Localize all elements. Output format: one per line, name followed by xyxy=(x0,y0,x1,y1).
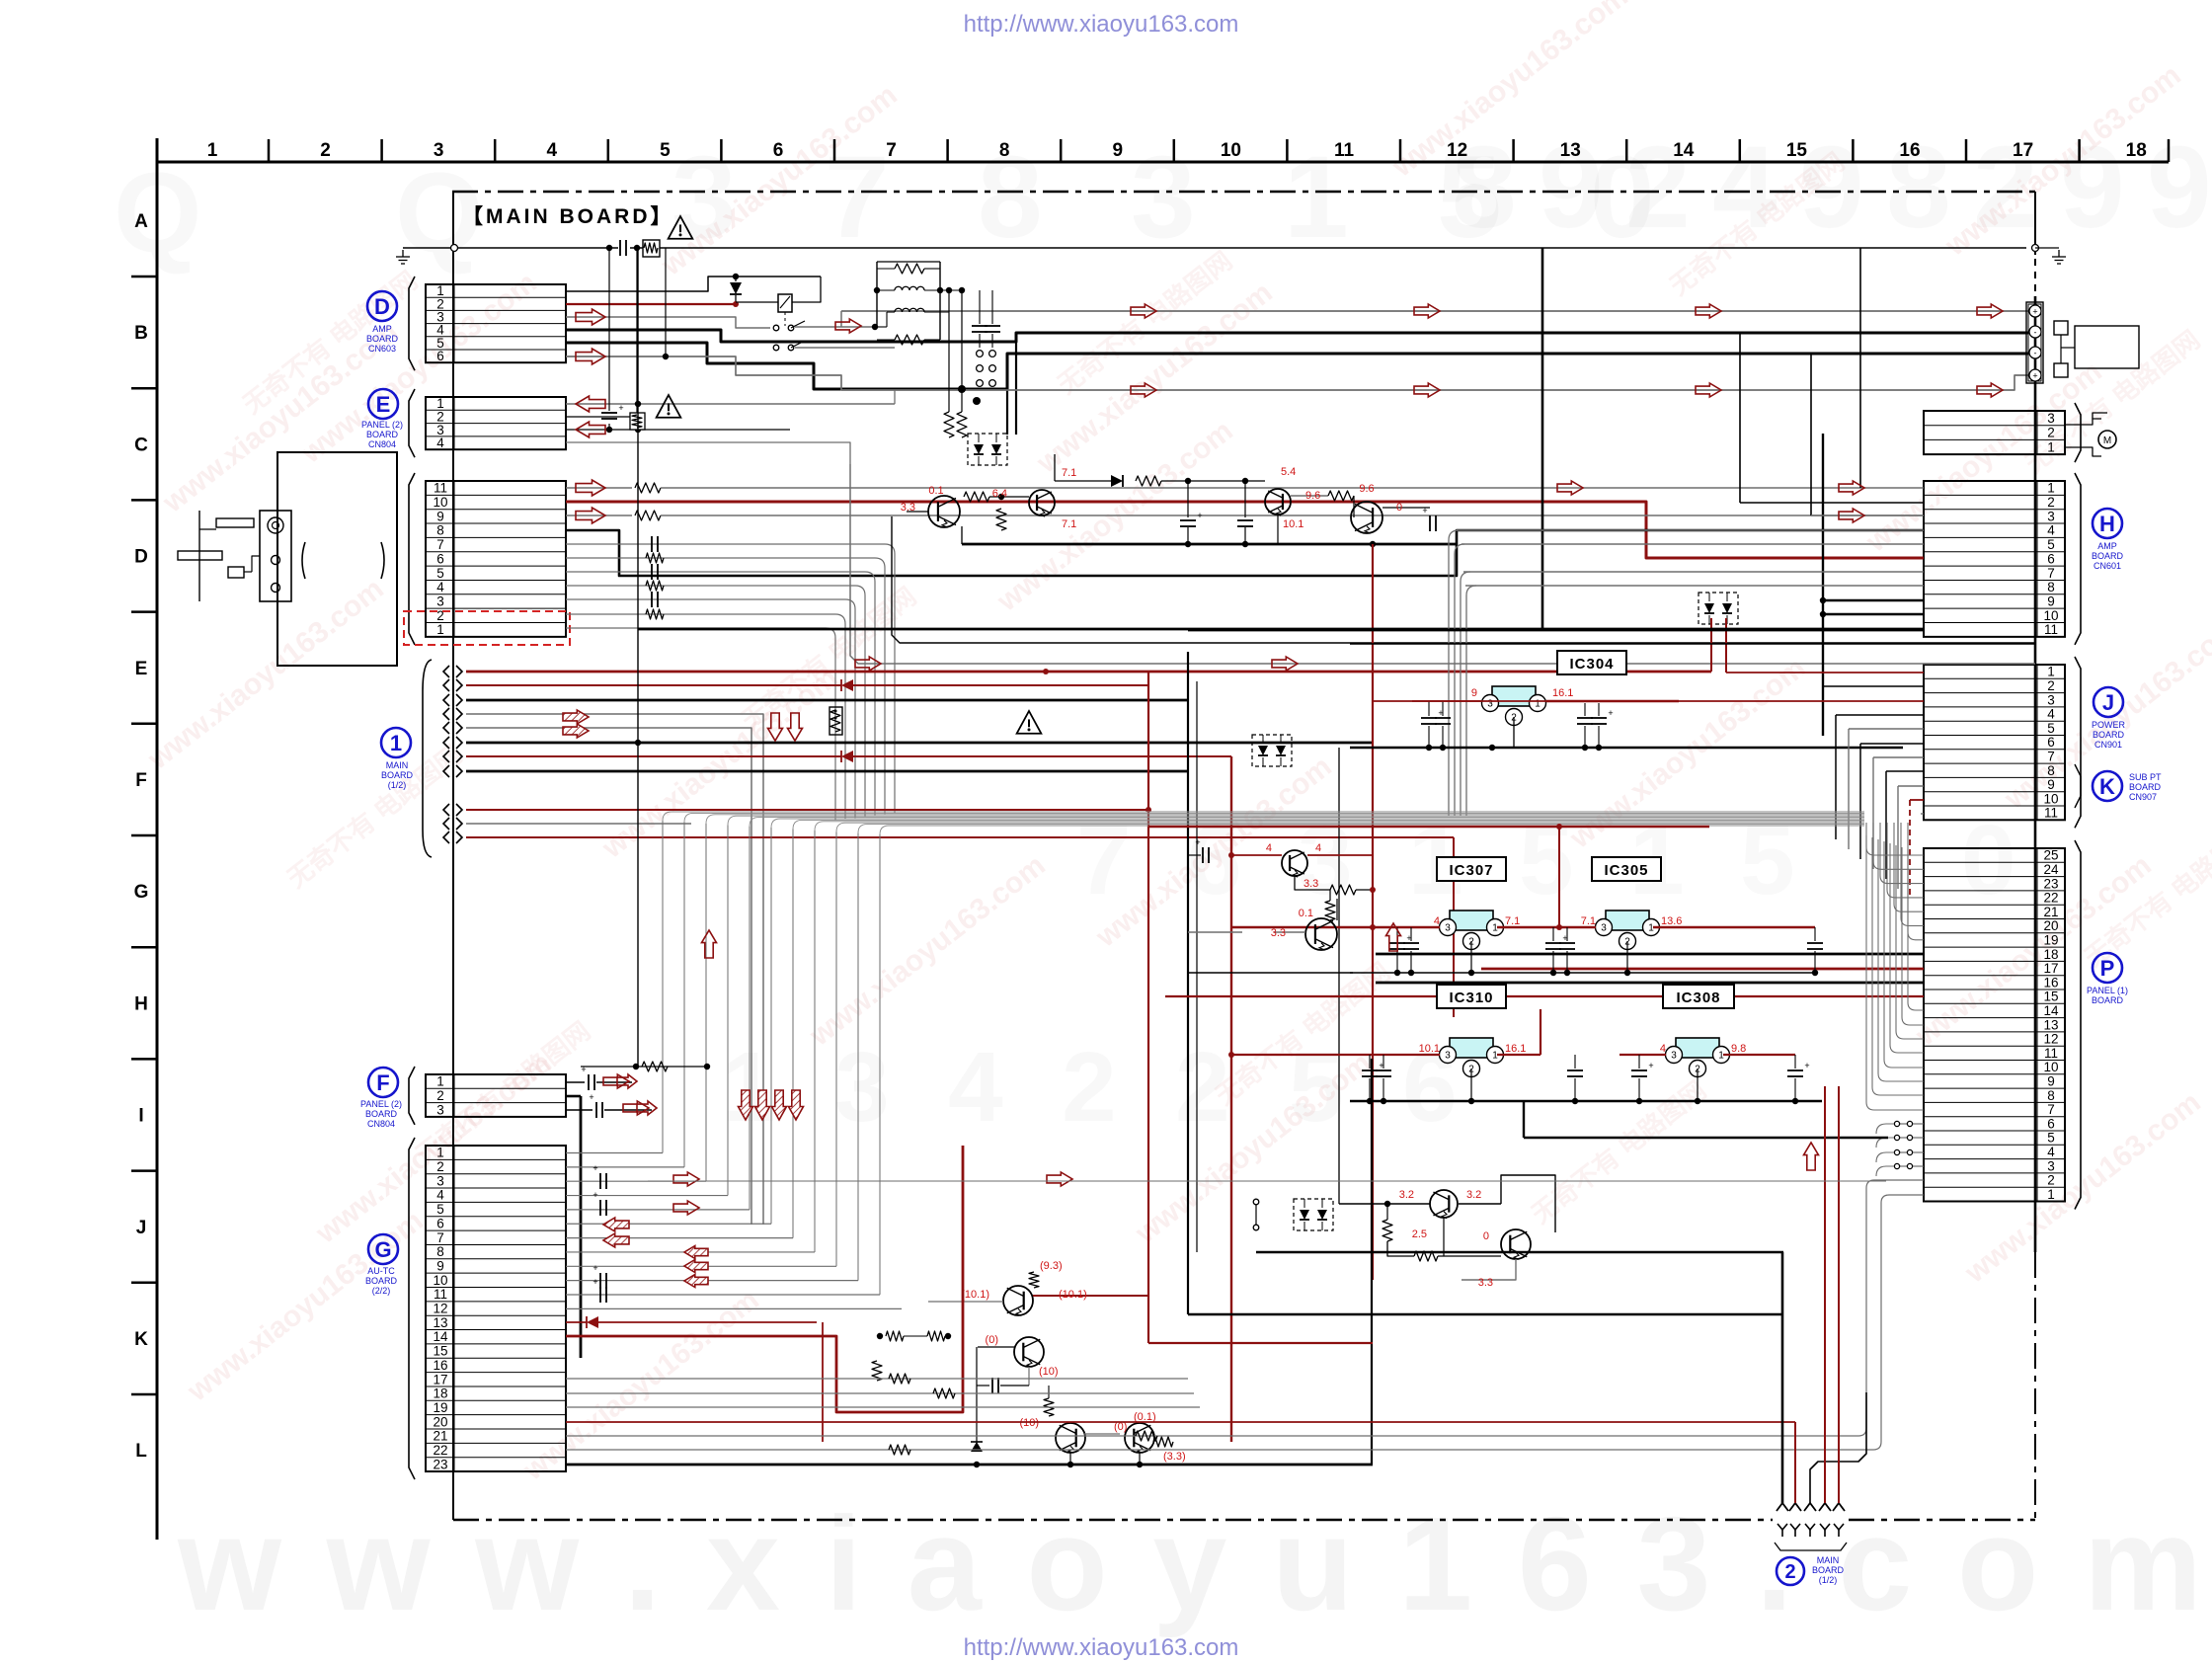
connector CN mech 11pin xyxy=(409,473,566,645)
svg-text:10: 10 xyxy=(1221,140,1241,161)
main board border xyxy=(452,192,2035,1520)
svg-text:17: 17 xyxy=(2043,961,2058,976)
svg-text:P: P xyxy=(2100,956,2115,981)
svg-text:22: 22 xyxy=(433,1443,447,1458)
svg-text:PANEL (2): PANEL (2) xyxy=(361,420,403,430)
connector motor 3pin xyxy=(1924,403,2081,462)
wire E pins xyxy=(566,248,895,464)
svg-text:1: 1 xyxy=(436,622,444,637)
svg-text:(10): (10) xyxy=(1019,1417,1039,1429)
svg-text:3: 3 xyxy=(2047,692,2055,707)
svg-text:6.4: 6.4 xyxy=(992,488,1007,500)
voltage labels Q5 Q6 xyxy=(1266,842,1321,939)
svg-text:17: 17 xyxy=(433,1372,447,1386)
svg-text:3.3: 3.3 xyxy=(1303,878,1318,890)
svg-text:3: 3 xyxy=(1601,923,1607,934)
svg-text:1: 1 xyxy=(2047,439,2055,454)
IC voltage labels xyxy=(1419,915,1747,1055)
wire lower rails xyxy=(1148,1138,1888,1343)
svg-text:0: 0 xyxy=(1396,502,1402,514)
label 2 xyxy=(1777,1555,1844,1585)
wire rail 985 ext xyxy=(1188,972,1353,974)
svg-text:2: 2 xyxy=(1062,1032,1117,1143)
svg-text:7.1: 7.1 xyxy=(1062,518,1076,530)
warning triangle 2 xyxy=(657,395,681,418)
svg-text:D: D xyxy=(374,294,390,319)
svg-text:POWER: POWER xyxy=(2092,720,2126,730)
warning triangle 1 xyxy=(669,216,693,239)
svg-text:18: 18 xyxy=(2043,947,2058,962)
svg-text:1: 1 xyxy=(2047,481,2055,496)
svg-text:3.3: 3.3 xyxy=(1271,927,1286,939)
dual diode D4 xyxy=(1294,1199,1333,1230)
svg-text:10: 10 xyxy=(2043,608,2058,623)
svg-text:5: 5 xyxy=(2047,721,2055,736)
svg-text:(3.3): (3.3) xyxy=(1163,1451,1186,1463)
svg-text:8: 8 xyxy=(2047,1088,2055,1103)
connector H AMP BOARD CN601 xyxy=(1924,473,2081,645)
svg-text:16: 16 xyxy=(1899,140,1920,161)
boxed resistor xyxy=(829,707,842,735)
svg-text:25: 25 xyxy=(2043,848,2058,863)
svg-text:BOARD: BOARD xyxy=(2092,551,2124,561)
svg-text:9: 9 xyxy=(2147,122,2212,253)
svg-text:1: 1 xyxy=(207,140,218,161)
svg-text:IC304: IC304 xyxy=(1569,656,1614,673)
svg-text:5: 5 xyxy=(436,1202,444,1217)
wire into J xyxy=(1373,673,1924,899)
svg-text:0: 0 xyxy=(1483,1230,1489,1242)
svg-text:9.6: 9.6 xyxy=(1359,483,1374,495)
svg-text:9: 9 xyxy=(2047,1073,2055,1088)
svg-text:+: + xyxy=(592,1277,597,1287)
svg-text:+: + xyxy=(2032,307,2037,317)
wire top rail xyxy=(396,245,2066,265)
svg-text:3: 3 xyxy=(1445,923,1451,934)
voltage labels Q7 Q8 xyxy=(1399,1189,1493,1289)
svg-text:+: + xyxy=(592,1263,597,1273)
svg-text:5: 5 xyxy=(2047,1131,2055,1146)
svg-text:11: 11 xyxy=(434,1287,447,1302)
svg-text:15: 15 xyxy=(1786,140,1808,161)
voltage labels bottom cluster xyxy=(961,1260,1185,1463)
svg-text:7.1: 7.1 xyxy=(1505,915,1520,927)
dual diode D1 xyxy=(968,434,1007,465)
svg-text:-: - xyxy=(2034,349,2037,358)
svg-text:22: 22 xyxy=(2043,891,2058,906)
svg-text:K: K xyxy=(2099,774,2115,799)
svg-text:4: 4 xyxy=(2047,1145,2055,1159)
svg-text:11: 11 xyxy=(2044,622,2058,637)
signal arrows xyxy=(563,304,2003,1288)
connector G AU-TC BOARD xyxy=(409,1138,566,1479)
svg-text:16: 16 xyxy=(433,1358,447,1373)
svg-text:3.2: 3.2 xyxy=(1466,1189,1481,1201)
svg-text:12: 12 xyxy=(2043,1032,2058,1047)
svg-text:SUB PT: SUB PT xyxy=(2129,772,2162,782)
svg-text:MAIN: MAIN xyxy=(1817,1555,1840,1565)
svg-text:14: 14 xyxy=(2043,1003,2059,1018)
svg-text:L: L xyxy=(135,1441,147,1462)
svg-text:1: 1 xyxy=(2047,665,2055,679)
svg-text:8: 8 xyxy=(2047,763,2055,778)
svg-text:【MAIN BOARD】: 【MAIN BOARD】 xyxy=(462,205,674,228)
dual diode D3 xyxy=(1698,593,1738,624)
svg-text:2: 2 xyxy=(2047,495,2055,510)
capacitor and resistor on rail xyxy=(618,240,660,257)
svg-text:9: 9 xyxy=(2047,777,2055,792)
wire mid verticals xyxy=(638,248,1860,1465)
svg-text:2: 2 xyxy=(2047,678,2055,693)
svg-text:J: J xyxy=(136,1218,147,1238)
wire CN11 stubs xyxy=(566,536,895,821)
svg-text:7.1: 7.1 xyxy=(1062,467,1076,479)
svg-text:6: 6 xyxy=(436,349,444,363)
label K xyxy=(2075,764,2162,808)
svg-text:1: 1 xyxy=(390,731,402,755)
svg-text:+: + xyxy=(1608,708,1613,718)
wire IC304 rails xyxy=(1188,630,2035,751)
svg-text:11: 11 xyxy=(2044,1046,2058,1061)
svg-text:D: D xyxy=(134,547,148,568)
svg-text:CN804: CN804 xyxy=(368,439,396,449)
svg-text:4: 4 xyxy=(436,1188,444,1203)
svg-text:9: 9 xyxy=(436,509,444,523)
svg-text:4: 4 xyxy=(948,1032,1003,1143)
label E xyxy=(361,389,403,449)
highlight rows 1-2 red dashed xyxy=(404,611,570,645)
svg-text:CN603: CN603 xyxy=(368,344,396,354)
svg-text:F: F xyxy=(376,1070,389,1095)
svg-text:3.3: 3.3 xyxy=(1478,1277,1493,1289)
svg-text:4: 4 xyxy=(436,436,444,450)
svg-text:H: H xyxy=(2099,512,2115,536)
svg-text:8: 8 xyxy=(436,1244,444,1259)
svg-text:13: 13 xyxy=(1560,140,1581,161)
svg-text:+: + xyxy=(592,1163,597,1173)
svg-text:6: 6 xyxy=(2047,1116,2055,1131)
svg-text:6: 6 xyxy=(2047,735,2055,750)
svg-text:E: E xyxy=(135,659,148,679)
svg-text:(0): (0) xyxy=(986,1334,998,1346)
svg-text:AMP: AMP xyxy=(372,324,392,334)
svg-text:IC310: IC310 xyxy=(1449,990,1493,1006)
svg-text:2: 2 xyxy=(2047,1173,2055,1188)
svg-text:3: 3 xyxy=(436,1173,444,1188)
svg-text:2: 2 xyxy=(1784,1561,1795,1583)
svg-text:4: 4 xyxy=(1660,1043,1666,1055)
svg-text:19: 19 xyxy=(433,1400,447,1415)
label H xyxy=(2092,509,2124,571)
transistors Q5 Q6 xyxy=(1188,837,1376,950)
wire F pins xyxy=(566,1065,652,1358)
svg-text:0: 0 xyxy=(1961,805,2016,915)
svg-text:G: G xyxy=(374,1237,391,1262)
svg-text:12: 12 xyxy=(433,1302,447,1316)
svg-text:F: F xyxy=(135,770,147,791)
wire long gray mid xyxy=(648,1180,1886,1182)
svg-text:10: 10 xyxy=(433,495,447,510)
svg-text:11: 11 xyxy=(2044,806,2058,821)
svg-text:PANEL (2): PANEL (2) xyxy=(360,1099,402,1109)
svg-text:17: 17 xyxy=(2013,140,2033,161)
svg-text:4: 4 xyxy=(547,140,558,161)
watermark url top xyxy=(964,11,1239,38)
svg-text:http://www.xiaoyu163.com: http://www.xiaoyu163.com xyxy=(964,11,1239,38)
connector F PANEL(2) CN804 xyxy=(409,1067,566,1125)
svg-text:7: 7 xyxy=(2047,1102,2055,1117)
connector E PANEL(2) CN804 xyxy=(409,389,566,457)
svg-text:23: 23 xyxy=(2043,876,2058,891)
svg-text:4: 4 xyxy=(1266,842,1272,854)
svg-text:20: 20 xyxy=(2043,918,2058,933)
svg-text:0.1: 0.1 xyxy=(928,485,943,497)
connector 1 chevrons xyxy=(423,660,462,857)
svg-text:G: G xyxy=(134,882,149,903)
svg-text:7.1: 7.1 xyxy=(1581,915,1596,927)
svg-text:10: 10 xyxy=(2043,791,2058,806)
wire D4 D5 D6 rails xyxy=(566,311,2028,435)
svg-text:(2/2): (2/2) xyxy=(372,1286,391,1296)
wire G red pins xyxy=(566,1146,1795,1442)
svg-text:13: 13 xyxy=(2043,1017,2058,1032)
wire D pin1 xyxy=(566,274,821,291)
svg-text:BOARD: BOARD xyxy=(365,1276,398,1286)
svg-text:4: 4 xyxy=(2047,523,2055,538)
wire D3 switches xyxy=(566,317,895,351)
wire long rails EF xyxy=(850,464,2035,664)
svg-text:5: 5 xyxy=(2047,537,2055,552)
svg-text:16.1: 16.1 xyxy=(1552,687,1573,699)
svg-text:1: 1 xyxy=(721,1032,776,1143)
connector P PANEL(1) BOARD xyxy=(1924,840,2081,1210)
svg-text:M: M xyxy=(2103,436,2111,446)
svg-text:E: E xyxy=(376,392,391,417)
svg-text:6: 6 xyxy=(773,140,784,161)
svg-text:23: 23 xyxy=(433,1457,447,1471)
svg-text:21: 21 xyxy=(2043,905,2058,919)
wire into H xyxy=(638,503,1924,629)
svg-text:+: + xyxy=(1648,1061,1653,1070)
svg-text:3.3: 3.3 xyxy=(901,502,915,514)
svg-text:2: 2 xyxy=(436,1159,444,1174)
svg-text:BOARD: BOARD xyxy=(366,334,399,344)
svg-text:2.5: 2.5 xyxy=(1412,1228,1427,1240)
svg-text:4: 4 xyxy=(1434,915,1440,927)
svg-text:+: + xyxy=(1422,506,1427,515)
svg-text:2: 2 xyxy=(436,1088,444,1103)
label D xyxy=(366,291,399,354)
main board title xyxy=(462,205,674,228)
svg-text:(1/2): (1/2) xyxy=(388,780,407,790)
svg-text:16: 16 xyxy=(2043,975,2058,990)
svg-text:3: 3 xyxy=(1131,132,1196,263)
svg-text:5: 5 xyxy=(660,140,671,161)
svg-text:http://www.xiaoyu163.com: http://www.xiaoyu163.com xyxy=(964,1634,1239,1661)
svg-text:20: 20 xyxy=(433,1414,447,1429)
svg-text:+: + xyxy=(589,1092,593,1102)
svg-text:14: 14 xyxy=(1673,140,1695,161)
svg-text:11: 11 xyxy=(1334,140,1355,161)
wire chevron bus xyxy=(466,669,1711,1225)
svg-text:4: 4 xyxy=(1315,842,1321,854)
svg-text:K: K xyxy=(134,1329,148,1350)
svg-text:IC308: IC308 xyxy=(1676,990,1720,1006)
svg-text:BOARD: BOARD xyxy=(2093,730,2125,740)
svg-text:10.1: 10.1 xyxy=(1283,518,1303,530)
svg-text:3: 3 xyxy=(1671,1051,1677,1062)
svg-text:3: 3 xyxy=(436,1102,444,1117)
svg-text:IC305: IC305 xyxy=(1604,862,1648,879)
svg-text:+: + xyxy=(618,403,623,413)
svg-text:7: 7 xyxy=(436,537,444,552)
CD mechanism block xyxy=(178,452,397,666)
wire bus CN11 upper xyxy=(566,483,1924,576)
svg-text:6: 6 xyxy=(436,551,444,566)
svg-text:1: 1 xyxy=(436,1146,444,1160)
speaker terminal block xyxy=(2026,302,2139,383)
svg-text:18: 18 xyxy=(433,1386,447,1401)
svg-text:(1/2): (1/2) xyxy=(1819,1575,1838,1585)
IC pack labels xyxy=(1437,857,1734,1077)
label G xyxy=(365,1234,398,1296)
transistors Q7 Q8 xyxy=(1339,1175,1555,1280)
svg-text:13: 13 xyxy=(433,1315,447,1330)
svg-text:BOARD: BOARD xyxy=(2092,995,2124,1005)
svg-text:6: 6 xyxy=(436,1216,444,1230)
svg-text:1: 1 xyxy=(2047,1187,2055,1202)
svg-text:18: 18 xyxy=(2126,140,2147,161)
wire gray bundle to P xyxy=(663,812,1864,1295)
svg-text:3: 3 xyxy=(834,1032,890,1143)
svg-text:8: 8 xyxy=(436,523,444,538)
svg-text:IC307: IC307 xyxy=(1449,862,1493,879)
svg-text:3: 3 xyxy=(2047,509,2055,523)
svg-text:19: 19 xyxy=(2043,932,2058,947)
svg-text:21: 21 xyxy=(433,1429,447,1444)
svg-text:H: H xyxy=(134,993,148,1014)
svg-text:+: + xyxy=(1804,1061,1809,1070)
connector D AMP BOARD CN603 xyxy=(409,277,566,370)
switch S2 xyxy=(1253,1199,1259,1230)
svg-text:+: + xyxy=(1197,511,1202,520)
transistors bottom cluster xyxy=(872,1272,1173,1467)
svg-text:C: C xyxy=(134,435,148,455)
svg-text:13.6: 13.6 xyxy=(1661,915,1682,927)
svg-text:BOARD: BOARD xyxy=(2129,782,2162,792)
svg-text:3: 3 xyxy=(436,594,444,608)
svg-text:8: 8 xyxy=(2047,580,2055,594)
regulator wiring xyxy=(1228,924,1823,1104)
svg-text:PANEL (1): PANEL (1) xyxy=(2087,986,2128,995)
connector J POWER BOARD CN901 xyxy=(1924,657,2081,828)
label J xyxy=(2092,687,2126,750)
svg-text:3: 3 xyxy=(2047,411,2055,426)
voltage labels Q row xyxy=(901,466,1402,530)
label F xyxy=(360,1068,402,1129)
svg-text:15: 15 xyxy=(2043,990,2058,1004)
svg-text:BOARD: BOARD xyxy=(1812,1565,1845,1575)
svg-text:3: 3 xyxy=(1445,1051,1451,1062)
svg-text:AMP: AMP xyxy=(2097,541,2117,551)
svg-text:6: 6 xyxy=(2047,551,2055,566)
svg-text:9: 9 xyxy=(1113,140,1124,161)
svg-text:(10.1): (10.1) xyxy=(1059,1289,1087,1301)
wire into P lower xyxy=(1866,835,1924,1176)
svg-text:CN907: CN907 xyxy=(2129,792,2157,802)
filter block coils xyxy=(874,262,1000,437)
watermark url bottom xyxy=(964,1634,1239,1661)
svg-text:3: 3 xyxy=(434,140,444,161)
svg-text:BOARD: BOARD xyxy=(366,430,399,439)
svg-text:J: J xyxy=(2102,690,2114,715)
svg-text:1: 1 xyxy=(436,1074,444,1089)
svg-text:15: 15 xyxy=(433,1344,447,1359)
svg-text:CN804: CN804 xyxy=(367,1119,395,1129)
svg-text:9: 9 xyxy=(436,1258,444,1273)
svg-text:4: 4 xyxy=(436,580,444,594)
wire above F xyxy=(581,1062,710,1071)
svg-text:B: B xyxy=(134,323,148,344)
wire D2 diode relay xyxy=(566,277,821,326)
svg-text:0.1: 0.1 xyxy=(1299,908,1313,919)
svg-text:CN901: CN901 xyxy=(2094,740,2122,750)
svg-text:7: 7 xyxy=(436,1230,444,1245)
svg-text:5: 5 xyxy=(436,566,444,581)
svg-text:7: 7 xyxy=(2047,566,2055,581)
svg-text:MAIN: MAIN xyxy=(386,760,409,770)
svg-text:BOARD: BOARD xyxy=(381,770,414,780)
svg-text:(10.1): (10.1) xyxy=(961,1289,989,1301)
transistor row Q1-Q4 xyxy=(907,454,1457,547)
svg-text:7: 7 xyxy=(2047,749,2055,763)
svg-text:11: 11 xyxy=(434,481,447,496)
wire into connector 2 xyxy=(1782,1086,1866,1503)
svg-text:4: 4 xyxy=(2047,707,2055,722)
svg-text:9: 9 xyxy=(1471,687,1477,699)
svg-text:I: I xyxy=(138,1106,143,1127)
wire red rails xyxy=(1148,824,1709,930)
svg-text:9.8: 9.8 xyxy=(1731,1043,1746,1055)
wire into P upper xyxy=(1165,823,1924,996)
svg-text:2: 2 xyxy=(320,140,331,161)
svg-text:14: 14 xyxy=(433,1329,448,1344)
svg-text:A: A xyxy=(134,211,148,232)
svg-text:(9.3): (9.3) xyxy=(1040,1260,1063,1272)
svg-text:2: 2 xyxy=(2047,426,2055,440)
wire G pins lower xyxy=(566,1180,1924,1465)
svg-text:w w w . x i a o y u 1 6 3 . c: w w w . x i a o y u 1 6 3 . c o m xyxy=(177,1489,2202,1638)
grid ruler frame xyxy=(131,138,2169,1540)
svg-text:+: + xyxy=(1195,837,1200,847)
op-amp IC304 xyxy=(1412,651,1679,748)
bundle curves to H xyxy=(1449,530,1476,816)
svg-text:8: 8 xyxy=(999,140,1010,161)
svg-text:24: 24 xyxy=(2043,862,2059,877)
label P xyxy=(2087,953,2128,1005)
svg-text:10: 10 xyxy=(433,1273,447,1288)
svg-text:CN601: CN601 xyxy=(2093,561,2121,571)
svg-text:3: 3 xyxy=(2047,1158,2055,1173)
svg-text:10: 10 xyxy=(2043,1060,2058,1074)
svg-text:3.2: 3.2 xyxy=(1399,1189,1414,1201)
svg-text:AU-TC: AU-TC xyxy=(367,1266,395,1276)
svg-text:BOARD: BOARD xyxy=(365,1109,398,1119)
svg-text:-: - xyxy=(2034,328,2037,338)
svg-text:+: + xyxy=(592,1190,597,1200)
svg-text:7: 7 xyxy=(886,140,897,161)
dual diode D2 xyxy=(1252,735,1292,766)
